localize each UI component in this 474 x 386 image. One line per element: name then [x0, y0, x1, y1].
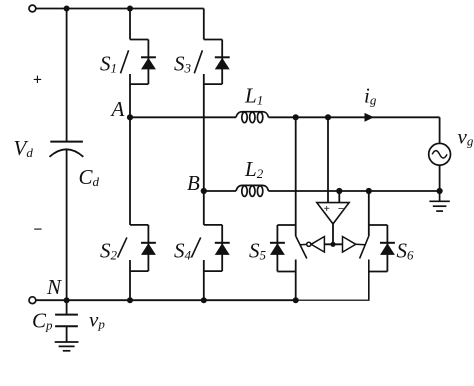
junction dot comparator output: [330, 242, 335, 247]
svg-text:S6: S6: [397, 239, 415, 263]
buffer gate (to S6): [343, 237, 365, 253]
ground under vg: [429, 191, 449, 211]
junction dot A-wire / S5 feed: [293, 114, 299, 120]
inverter gate (to S5): [300, 237, 324, 253]
junction dot vg / B wire: [437, 188, 443, 194]
wire bottom bus: [36, 299, 296, 301]
wire leg1 bottom: [129, 260, 131, 300]
wire comparator minus input (from B wire): [338, 191, 340, 203]
switch S6: [360, 225, 395, 272]
wire leg2 bottom: [203, 260, 205, 300]
svg-text:−: −: [338, 203, 345, 215]
terminal N (bottom-left): [29, 297, 36, 304]
wire Cp upper: [66, 300, 68, 314]
switch S5: [270, 225, 307, 272]
svg-text:S3: S3: [174, 52, 192, 76]
wire Cd branch lower: [66, 150, 68, 300]
wire corner down to vg: [439, 117, 441, 143]
svg-text:S5: S5: [249, 239, 267, 263]
ground under Cp: [55, 342, 79, 351]
junction dot A-wire / comparator input: [325, 114, 331, 120]
capacitor Cd: [50, 142, 84, 157]
inductor L1: [236, 112, 268, 123]
node A dot: [127, 114, 133, 120]
inductor L2: [236, 185, 268, 196]
junction dot B-wire / comparator minus input: [336, 188, 342, 194]
junction dot bottom / S4 leg: [201, 297, 207, 303]
svg-text:vp: vp: [89, 308, 105, 332]
switch S4: [191, 225, 229, 271]
svg-text:ig: ig: [364, 84, 377, 108]
switch S1: [121, 40, 156, 85]
comparator U1: [317, 203, 349, 224]
junction dot bottom / Cp: [64, 297, 70, 303]
wire leg2 top (bus corner to S3): [203, 9, 205, 40]
switch S2: [118, 225, 156, 271]
input terminal top-left: [29, 5, 36, 12]
svg-text:A: A: [110, 97, 125, 121]
svg-text:Vd: Vd: [14, 136, 34, 160]
current arrow ig: [365, 113, 375, 122]
svg-text:−: −: [33, 222, 43, 239]
svg-text:S4: S4: [174, 239, 192, 263]
svg-text:Cp: Cp: [32, 309, 53, 333]
svg-text:N: N: [46, 275, 62, 299]
wire leg2 middle (S3 to S4 through node B): [203, 74, 205, 225]
wire leg1 middle (S1 to S2 through node A): [129, 74, 131, 225]
svg-text:+: +: [324, 203, 330, 215]
svg-text:S2: S2: [100, 239, 118, 263]
junction dot bottom / S5: [293, 297, 299, 303]
junction dot bottom / S2 leg: [127, 297, 133, 303]
wire node B to L2: [204, 190, 236, 192]
wire S6 feed (B wire down): [368, 191, 370, 236]
svg-text:L2: L2: [244, 157, 264, 181]
wire Cd branch upper: [66, 9, 68, 142]
wire L1 to corner: [268, 116, 439, 118]
wire S5 bottom: [295, 260, 297, 301]
wire S5 feed (A wire down, crossing B wire): [295, 117, 297, 236]
svg-text:B: B: [187, 171, 200, 195]
ac source vg: [429, 143, 451, 165]
svg-text:L1: L1: [244, 84, 263, 108]
svg-text:Cd: Cd: [79, 165, 100, 189]
svg-text:+: +: [33, 72, 42, 89]
svg-text:vg: vg: [458, 125, 474, 149]
wire Cp lower: [66, 326, 68, 341]
switch S3: [194, 40, 229, 85]
junction dot top bus / Cd branch: [64, 6, 70, 12]
junction dot top bus / S1 leg: [127, 6, 133, 12]
svg-text:S1: S1: [100, 52, 117, 76]
wire comparator output: [332, 224, 334, 244]
wire node A to L1: [130, 116, 236, 118]
wire S6 bottom: [368, 260, 370, 301]
wire leg1 top (bus to S1): [129, 9, 131, 40]
wire top bus: [36, 8, 204, 10]
capacitor Cp: [55, 315, 78, 327]
wire L2 to vg: [268, 190, 439, 192]
wire output to gates: [324, 243, 342, 245]
wire vg to B wire: [439, 165, 441, 191]
junction dot B-wire / S6 feed: [366, 188, 372, 194]
wire comparator plus input (from A wire): [327, 117, 329, 202]
node B dot: [201, 188, 207, 194]
